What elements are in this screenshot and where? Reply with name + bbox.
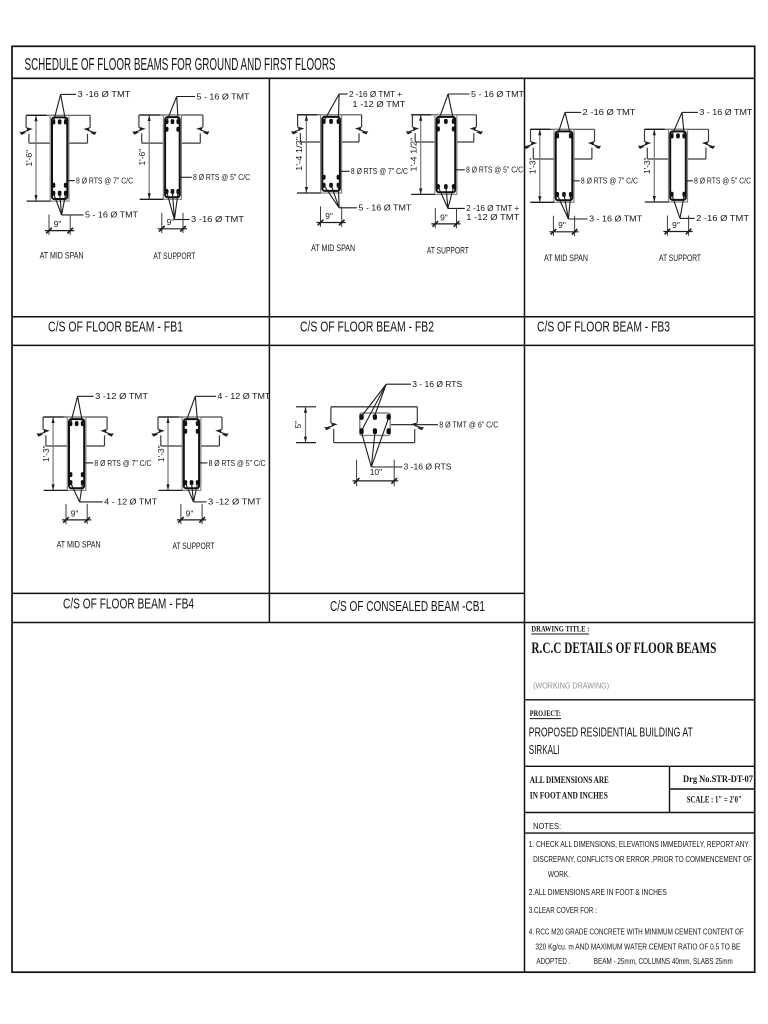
svg-text:1'-3": 1'-3" bbox=[41, 445, 51, 462]
beam section FB3 at support: top rebar dots bbox=[670, 133, 686, 138]
svg-text:3 -12 Ø TMT: 3 -12 Ø TMT bbox=[95, 391, 148, 401]
svg-text:320 Kg/cu. m AND MAXIMUM WATE: 320 Kg/cu. m AND MAXIMUM WATER CEMENT RA… bbox=[535, 942, 740, 951]
beam section FB1 at support: width dimension 9&quot; bbox=[158, 213, 187, 233]
svg-text:3 -16 Ø TMT: 3 -16 Ø TMT bbox=[78, 89, 131, 99]
grid: vertical divider 1 bbox=[268, 78, 270, 622]
beam section FB3 at support: width dimension 9&quot; bbox=[663, 216, 692, 236]
svg-text:AT SUPPORT: AT SUPPORT bbox=[427, 245, 469, 255]
svg-text:1 -12 Ø TMT: 1 -12 Ø TMT bbox=[352, 99, 405, 109]
beam section FB2 at support: top reinforcement leader and label bbox=[438, 89, 524, 122]
beam section FB3 at support: bottom reinforcement leader and label bbox=[672, 194, 749, 223]
svg-text:4. RCC M20 GRADE CONCRETE WITH: 4. RCC M20 GRADE CONCRETE WITH MINIMUM C… bbox=[529, 928, 744, 937]
svg-text:SCALE : 1" = 2'0": SCALE : 1" = 2'0" bbox=[687, 794, 742, 805]
beam section FB4 at support: height dimension 1'-3" bbox=[156, 417, 182, 490]
grid: row1 caption bar lines bbox=[12, 316, 755, 318]
beam section FB2 at mid span: height dimension 1'-4 1/2" bbox=[294, 115, 320, 193]
beam section FB1 at mid span: height dimension 1'-6" bbox=[24, 115, 50, 201]
beam section FB4 at support: stirrup leader and label bbox=[199, 458, 266, 468]
svg-text:AT SUPPORT: AT SUPPORT bbox=[153, 251, 195, 261]
beam section FB1 at mid span: top rebar dots bbox=[52, 119, 68, 124]
svg-text:2 -16 Ø TMT: 2 -16 Ø TMT bbox=[696, 213, 749, 223]
svg-text:2 -16 Ø TMT: 2 -16 Ø TMT bbox=[583, 107, 636, 117]
svg-text:3 -16 Ø TMT: 3 -16 Ø TMT bbox=[191, 214, 244, 224]
svg-text:9": 9" bbox=[325, 211, 333, 221]
svg-text:1'-6": 1'-6" bbox=[24, 150, 34, 167]
svg-text:8 Ø RTS @ 7" C/C: 8 Ø RTS @ 7" C/C bbox=[94, 458, 151, 468]
title block: dimensions note cell bbox=[530, 775, 609, 802]
svg-text:8 Ø RTS @ 7" C/C: 8 Ø RTS @ 7" C/C bbox=[76, 176, 133, 186]
beam section FB2 at support: bottom reinforcement leader and label bbox=[438, 187, 519, 222]
svg-text:ADOPTED .: ADOPTED . bbox=[536, 957, 570, 966]
beam section FB1 at support: bottom reinforcement leader and label bbox=[167, 192, 244, 225]
svg-text:5 - 16 Ø TMT: 5 - 16 Ø TMT bbox=[471, 89, 524, 99]
beam section FB1 at mid span: beam outline bbox=[50, 115, 69, 201]
beam section FB3 at support: stirrup bbox=[670, 131, 686, 200]
beam section FB2 at support: stirrup bbox=[437, 117, 456, 192]
title block: horizontal rules bbox=[525, 700, 755, 833]
svg-text:PROPOSED RESIDENTIAL BUILDIN: PROPOSED RESIDENTIAL BUILDING AT bbox=[529, 725, 693, 740]
beam section FB2 at mid span: beam outline bbox=[321, 115, 342, 193]
beam section FB2 at mid span: slab outline bbox=[298, 115, 362, 142]
svg-text:5": 5" bbox=[293, 421, 303, 429]
beam section FB2 at support: slab outline bbox=[412, 115, 476, 142]
beam section FB4 at mid span: stirrup bbox=[69, 419, 84, 488]
svg-text:8 Ø RTS @ 7" C/C: 8 Ø RTS @ 7" C/C bbox=[581, 176, 638, 186]
svg-text:9": 9" bbox=[54, 219, 62, 229]
svg-text:2 -16 Ø TMT +: 2 -16 Ø TMT + bbox=[349, 89, 402, 99]
beam section FB4 at support: beam outline bbox=[182, 417, 201, 490]
beam section FB4 at support: slab break mark left bbox=[151, 417, 164, 446]
svg-text:3 -12 Ø TMT: 3 -12 Ø TMT bbox=[208, 497, 261, 507]
beam section FB1 at support: slab break mark right bbox=[196, 115, 209, 143]
svg-text:NOTES:: NOTES: bbox=[533, 821, 561, 831]
concealed beam CB1: width dimension 10&quot; bbox=[353, 460, 399, 487]
beam section FB2 at support: stirrup leader and label bbox=[455, 165, 523, 175]
beam section FB1 at mid span: slab break mark left bbox=[20, 115, 33, 143]
beam section FB1 at mid span: slab break mark right bbox=[83, 115, 96, 143]
beam section FB1 at support: stirrup bbox=[165, 117, 180, 197]
svg-text:R.C.C DETAILS OF FLOOR BEAMS: R.C.C DETAILS OF FLOOR BEAMS bbox=[531, 640, 716, 657]
beam section FB1 at support: top rebar dots bbox=[165, 119, 180, 132]
beam section FB4 at support: slab outline bbox=[158, 417, 222, 446]
beam section FB4 at mid span: bottom rebar dots bbox=[69, 472, 85, 485]
svg-text:2.ALL DIMENSIONS ARE IN FOOT &: 2.ALL DIMENSIONS ARE IN FOOT & INCHES bbox=[529, 888, 667, 897]
svg-text:1'-3": 1'-3" bbox=[642, 157, 652, 174]
title block: note 4 bbox=[529, 928, 744, 967]
svg-text:5 - 16 Ø TMT: 5 - 16 Ø TMT bbox=[358, 202, 411, 212]
beam section FB4 at support: bottom rebar dots bbox=[184, 480, 200, 485]
concealed beam CB1: slab break mark left bbox=[324, 407, 337, 443]
svg-text:8 Ø RTS @ 5" C/C: 8 Ø RTS @ 5" C/C bbox=[209, 458, 266, 468]
svg-text:PROJECT:: PROJECT: bbox=[530, 709, 561, 718]
beam section FB4 at support: slab break mark right bbox=[215, 417, 228, 446]
svg-text:IN FOOT AND INCHES: IN FOOT AND INCHES bbox=[530, 791, 608, 802]
beam section FB3 at mid span: beam outline bbox=[554, 129, 574, 202]
beam section FB2 at mid span: slab break mark left bbox=[291, 115, 304, 142]
svg-text:(WORKING DRAWING): (WORKING DRAWING) bbox=[533, 680, 609, 690]
svg-text:Drg No.STR-DT-07: Drg No.STR-DT-07 bbox=[683, 774, 753, 785]
svg-text:4 - 12 Ø TMT: 4 - 12 Ø TMT bbox=[217, 391, 270, 401]
beam section FB4 at support: bottom reinforcement leader and label bbox=[185, 483, 261, 507]
beam section FB2 at mid span: stirrup bbox=[322, 117, 340, 191]
svg-text:1. CHECK ALL DIMENSIONS, ELEV: 1. CHECK ALL DIMENSIONS, ELEVATIONS IMME… bbox=[529, 840, 750, 849]
beam section FB1 at support: beam outline bbox=[163, 115, 181, 199]
beam section FB4 at mid span: top reinforcement leader and label bbox=[71, 391, 149, 424]
beam section FB3 at mid span: width dimension 9&quot; bbox=[549, 216, 578, 236]
beam section FB4 at mid span: slab break mark left bbox=[37, 417, 50, 446]
svg-text:AT MID SPAN: AT MID SPAN bbox=[57, 539, 101, 549]
title block: drawing title bbox=[531, 625, 716, 691]
beam section FB3 at mid span: top reinforcement leader and label bbox=[557, 107, 635, 136]
svg-text:8 Ø RTS @ 7" C/C: 8 Ø RTS @ 7" C/C bbox=[351, 166, 408, 176]
beam section FB1 at mid span: slab outline bbox=[26, 115, 90, 143]
svg-text:10": 10" bbox=[370, 467, 382, 477]
concealed beam CB1: bottom reinforcement leader and label bbox=[362, 418, 452, 472]
beam section FB4 at support: top rebar dots bbox=[184, 421, 200, 434]
beam section FB2 at support: slab break mark left bbox=[406, 115, 419, 142]
svg-text:AT MID SPAN: AT MID SPAN bbox=[40, 251, 84, 261]
svg-text:3 -16 Ø RTS: 3 -16 Ø RTS bbox=[404, 462, 452, 472]
beam section FB1 at mid span: stirrup bbox=[52, 117, 67, 199]
beam section FB3 at support: stirrup leader and label bbox=[686, 176, 752, 186]
beam section FB3 at support: slab outline bbox=[645, 129, 709, 159]
svg-text:1'-3": 1'-3" bbox=[156, 445, 166, 462]
title block: project bbox=[529, 709, 693, 757]
svg-text:1 -12 Ø TMT: 1 -12 Ø TMT bbox=[466, 212, 519, 222]
svg-text:3.CLEAR COVER FOR :: 3.CLEAR COVER FOR : bbox=[529, 906, 597, 915]
beam section FB3 at support: bottom rebar dots bbox=[670, 192, 686, 197]
svg-text:AT SUPPORT: AT SUPPORT bbox=[659, 253, 701, 263]
concealed beam CB1: depth dimension 5&quot; bbox=[293, 407, 316, 443]
svg-text:8 Ø RTS @ 5" C/C: 8 Ø RTS @ 5" C/C bbox=[193, 172, 250, 182]
beam section FB4 at support: width dimension 9&quot; bbox=[177, 504, 206, 524]
svg-text:9": 9" bbox=[558, 220, 566, 230]
svg-text:AT MID SPAN: AT MID SPAN bbox=[544, 253, 588, 263]
beam section FB3 at support: slab break mark left bbox=[638, 129, 651, 159]
beam section FB1 at mid span: bottom rebar dots bbox=[52, 183, 68, 196]
svg-text:3 - 16 Ø RTS: 3 - 16 Ø RTS bbox=[412, 379, 462, 389]
svg-text:5 - 16 Ø TMT: 5 - 16 Ø TMT bbox=[85, 210, 138, 220]
beam section FB1 at mid span: bottom reinforcement leader and label bbox=[54, 193, 139, 219]
svg-text:1'-3": 1'-3" bbox=[528, 157, 538, 174]
svg-text:DRAWING TITLE :: DRAWING TITLE : bbox=[531, 625, 589, 634]
svg-text:9": 9" bbox=[71, 508, 79, 518]
beam section FB4 at support: stirrup bbox=[184, 419, 199, 488]
svg-text:C/S OF FLOOR BEAM - FB3: C/S OF FLOOR BEAM - FB3 bbox=[537, 319, 670, 335]
concealed beam CB1: stirrup leader and label bbox=[391, 419, 498, 429]
concealed beam CB1: stirrup bbox=[360, 413, 390, 435]
svg-text:5 - 16 Ø TMT: 5 - 16 Ø TMT bbox=[197, 91, 250, 101]
beam section FB2 at support: top rebar dots bbox=[436, 119, 455, 132]
beam section FB3 at mid span: height dimension 1'-3" bbox=[528, 129, 554, 202]
beam section FB2 at mid span: bottom reinforcement leader and label bbox=[324, 185, 412, 212]
beam section FB1 at support: bottom rebar dots bbox=[165, 189, 180, 194]
svg-text:1'-6": 1'-6" bbox=[137, 149, 147, 166]
beam section FB2 at mid span: stirrup leader and label bbox=[340, 166, 408, 176]
svg-text:AT MID SPAN: AT MID SPAN bbox=[311, 243, 355, 253]
beam section FB1 at support: top reinforcement leader and label bbox=[167, 91, 250, 121]
svg-text:3 - 16 Ø TMT: 3 - 16 Ø TMT bbox=[699, 107, 752, 117]
grid: vertical divider 2 / title block left edge bbox=[524, 78, 526, 972]
concealed beam CB1: top reinforcement leader and label bbox=[362, 379, 463, 430]
beam section FB2 at support: bottom rebar dots bbox=[436, 184, 455, 189]
svg-text:AT SUPPORT: AT SUPPORT bbox=[173, 541, 215, 551]
beam section FB3 at mid span: slab break mark left bbox=[524, 129, 537, 159]
svg-text:9": 9" bbox=[167, 217, 175, 227]
svg-text:C/S OF FLOOR BEAM - FB1: C/S OF FLOOR BEAM - FB1 bbox=[48, 319, 183, 335]
beam section FB3 at support: height dimension 1'-3" bbox=[642, 129, 668, 202]
svg-text:ALL DIMENSIONS ARE: ALL DIMENSIONS ARE bbox=[530, 775, 609, 786]
beam section FB3 at mid span: slab break mark right bbox=[588, 129, 601, 159]
beam section FB4 at mid span: height dimension 1'-3" bbox=[41, 417, 67, 490]
beam section FB4 at mid span: bottom reinforcement leader and label bbox=[71, 483, 158, 507]
svg-text:4 - 12 Ø TMT: 4 - 12 Ø TMT bbox=[104, 497, 157, 507]
beam section FB1 at mid span: width dimension 9&quot; bbox=[45, 215, 74, 235]
concealed beam CB1: rebar dots bbox=[360, 414, 391, 434]
beam section FB4 at mid span: slab break mark right bbox=[100, 417, 113, 446]
beam section FB1 at mid span: stirrup leader and label bbox=[67, 176, 133, 186]
beam section FB4 at mid span: slab outline bbox=[43, 417, 107, 446]
beam section FB2 at support: width dimension 9&quot; bbox=[431, 208, 460, 228]
svg-text:BEAM - 25mm, COLUMNS 40mm, SLA: BEAM - 25mm, COLUMNS 40mm, SLABS 25mm bbox=[594, 957, 733, 966]
beam section FB4 at mid span: top rebar dots bbox=[69, 421, 85, 426]
svg-text:SCHEDULE OF FLOOR BEAMS FOR: SCHEDULE OF FLOOR BEAMS FOR GROUND AND F… bbox=[25, 54, 336, 74]
beam section FB4 at mid span: stirrup leader and label bbox=[84, 458, 151, 468]
svg-text:C/S OF FLOOR BEAM - FB4: C/S OF FLOOR BEAM - FB4 bbox=[63, 596, 194, 612]
beam section FB3 at mid span: stirrup leader and label bbox=[572, 176, 638, 186]
svg-text:9": 9" bbox=[440, 212, 448, 222]
svg-text:1'-4 1/2": 1'-4 1/2" bbox=[409, 138, 419, 172]
beam section FB3 at support: beam outline bbox=[669, 129, 688, 202]
svg-text:8 Ø RTS @ 5" C/C: 8 Ø RTS @ 5" C/C bbox=[694, 176, 751, 186]
beam section FB3 at support: top reinforcement leader and label bbox=[672, 107, 753, 136]
beam section FB4 at support: top reinforcement leader and label bbox=[185, 391, 270, 424]
beam section FB4 at mid span: width dimension 9&quot; bbox=[62, 504, 91, 524]
svg-text:WORK.: WORK. bbox=[548, 870, 570, 879]
beam section FB3 at support: slab break mark right bbox=[702, 129, 715, 159]
grid: row2 caption bar lines bbox=[12, 592, 525, 594]
svg-text:8 Ø TMT @ 6" C/C: 8 Ø TMT @ 6" C/C bbox=[439, 419, 498, 429]
beam section FB2 at mid span: top rebar dots bbox=[322, 119, 340, 124]
svg-text:C/S OF FLOOR BEAM - FB2: C/S OF FLOOR BEAM - FB2 bbox=[300, 319, 434, 335]
beam section FB3 at mid span: bottom reinforcement leader and label bbox=[557, 195, 642, 224]
svg-text:9": 9" bbox=[186, 508, 194, 518]
svg-text:1'-4 1/2": 1'-4 1/2" bbox=[294, 137, 304, 171]
beam section FB2 at support: height dimension 1'-4 1/2" bbox=[409, 115, 435, 195]
beam section FB3 at mid span: stirrup bbox=[556, 131, 573, 200]
svg-text:3 - 16 Ø TMT: 3 - 16 Ø TMT bbox=[589, 214, 642, 224]
beam section FB1 at support: stirrup leader and label bbox=[179, 172, 250, 182]
beam section FB3 at mid span: bottom rebar dots bbox=[555, 192, 572, 197]
svg-text:DISCREPANY, CONFLICTS OR ERROR: DISCREPANY, CONFLICTS OR ERROR ,PRIOR TO… bbox=[533, 855, 752, 864]
beam section FB3 at mid span: slab outline bbox=[531, 129, 595, 159]
beam section FB1 at support: slab outline bbox=[139, 115, 203, 143]
beam section FB2 at support: beam outline bbox=[435, 115, 457, 195]
svg-text:C/S OF CONSEALED BEAM -CB1: C/S OF CONSEALED BEAM -CB1 bbox=[330, 599, 485, 615]
beam section FB1 at support: height dimension 1'-6" bbox=[137, 115, 163, 199]
concealed beam CB1: slab break mark right bbox=[411, 407, 424, 443]
beam section FB2 at mid span: width dimension 9&quot; bbox=[317, 207, 346, 227]
beam section FB2 at mid span: slab break mark right bbox=[355, 115, 368, 142]
svg-text:SIRKALI: SIRKALI bbox=[529, 742, 560, 757]
beam section FB4 at mid span: beam outline bbox=[67, 417, 86, 490]
beam section FB2 at mid span: top reinforcement leader and label bbox=[324, 89, 406, 122]
sheet title bar bbox=[12, 77, 755, 79]
svg-text:9": 9" bbox=[672, 220, 680, 230]
beam section FB1 at mid span: top reinforcement leader and label bbox=[54, 89, 131, 122]
beam section FB2 at support: slab break mark right bbox=[470, 115, 483, 142]
concealed beam CB1: slab outline bbox=[331, 407, 417, 443]
beam section FB1 at support: slab break mark left bbox=[132, 115, 145, 143]
svg-text:8 Ø RTS @ 5" C/C: 8 Ø RTS @ 5" C/C bbox=[466, 165, 523, 175]
title block: note 1 bbox=[529, 840, 752, 879]
beam section FB3 at mid span: top rebar dots bbox=[555, 133, 572, 138]
beam section FB2 at mid span: bottom rebar dots bbox=[322, 175, 340, 188]
